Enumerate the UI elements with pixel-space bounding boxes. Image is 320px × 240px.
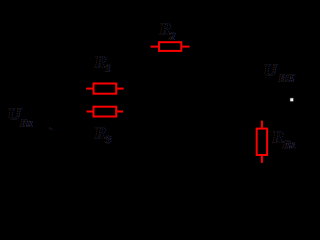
wire: node A to R1 left lead	[20, 88, 86, 90]
label R1	[93, 53, 112, 75]
label U_BE (upper right)	[263, 61, 296, 85]
wire: node A to R3 left lead	[20, 111, 86, 113]
resistor Rx (right, vertical)	[257, 121, 267, 163]
wire: node B up to R2 left lead	[139, 47, 141, 113]
wire: right rail down to resistor Rx top lead	[261, 47, 263, 122]
wire: left rail from source up to node A	[19, 88, 21, 111]
resistor R3 (lower left, horizontal)	[87, 107, 124, 117]
label R2	[158, 20, 176, 43]
label R3	[93, 124, 112, 147]
wire: R2 right lead to right rail	[190, 46, 262, 48]
label Rx	[271, 128, 296, 152]
wire: Rx bottom lead to bottom rail	[261, 162, 263, 180]
wire: R3 right lead to node B	[124, 111, 140, 113]
resistor R2 (top, horizontal)	[151, 42, 190, 51]
wire: bottom rail back to source	[20, 179, 262, 181]
node: white junction dot	[290, 98, 294, 102]
wire: R1 right lead to node B	[124, 88, 140, 90]
node: faint junction mark near R3 left	[49, 127, 53, 130]
label U_Rx (left source voltage)	[7, 105, 33, 130]
resistor R1 (middle left, horizontal)	[86, 84, 124, 94]
